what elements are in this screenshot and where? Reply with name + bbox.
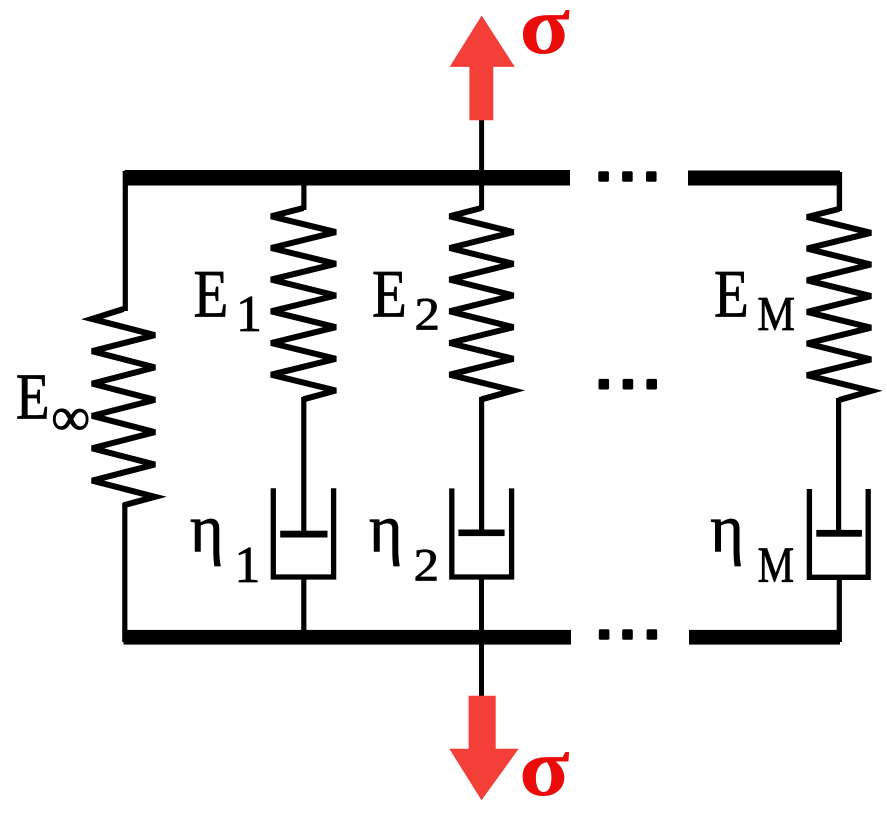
wire branch1 below cup to bottom bar <box>301 575 306 642</box>
svg-text:η: η <box>369 491 403 567</box>
wire branch1 top stub <box>301 183 306 210</box>
dashpot piston plate 2 <box>458 530 504 537</box>
spring E2 <box>450 208 514 399</box>
svg-text:M: M <box>758 538 794 594</box>
svg-text:σ: σ <box>519 0 570 72</box>
top rigid bar left segment <box>125 170 571 186</box>
spring Einf <box>92 309 155 505</box>
wire branch1 rod to piston <box>301 397 306 534</box>
dashpot piston plate M <box>816 530 862 537</box>
svg-text:1: 1 <box>235 537 261 594</box>
svg-text:E: E <box>714 256 749 332</box>
bottom rigid bar left segment <box>124 630 572 645</box>
wire left top (bar to spring Einf) <box>123 171 128 311</box>
ellipsis dots middle row <box>599 379 658 390</box>
svg-text:2: 2 <box>415 288 440 340</box>
wire branchM rod to piston <box>836 398 841 534</box>
wire branchM below cup to bottom bar <box>837 575 842 642</box>
spring EM <box>807 209 871 400</box>
svg-text:E: E <box>16 361 50 434</box>
svg-text:1: 1 <box>236 286 262 343</box>
wire branch2 rod to piston <box>479 397 484 533</box>
dashpot cup 1 <box>273 488 333 577</box>
wire branch2 stub through top bar (arrow line) <box>479 119 484 210</box>
wire branch2 below cup through bottom bar <box>479 575 484 696</box>
stress arrow bottom (red, down) <box>449 696 518 800</box>
top rigid bar right segment <box>688 171 840 186</box>
svg-text:σ: σ <box>519 723 570 813</box>
stress arrow top (red, up) <box>450 16 515 121</box>
bottom rigid bar right segment <box>689 630 840 645</box>
svg-text:E: E <box>194 256 229 332</box>
svg-text:M: M <box>757 287 795 340</box>
svg-text:2: 2 <box>414 539 439 591</box>
svg-text:E: E <box>372 256 407 332</box>
wire branchM top stub <box>837 172 842 211</box>
dashpot cup M <box>809 489 868 577</box>
svg-text:η: η <box>190 491 224 567</box>
svg-text:η: η <box>710 491 744 567</box>
ellipsis dots top row <box>598 171 656 182</box>
dashpot piston plate 1 <box>280 531 327 538</box>
svg-text:∞: ∞ <box>51 386 90 447</box>
dashpot cup 2 <box>452 488 512 577</box>
ellipsis dots bottom row <box>599 629 657 640</box>
wire left bottom (spring Einf to bottom bar) <box>122 503 127 642</box>
spring E1 <box>271 208 336 399</box>
